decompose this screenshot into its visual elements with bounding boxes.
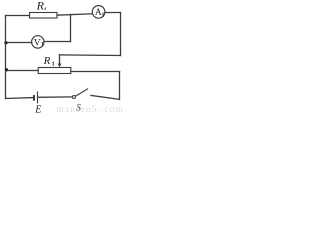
svg-text:R: R: [36, 0, 45, 13]
svg-text:E: E: [34, 104, 41, 115]
svg-text:1: 1: [52, 61, 55, 67]
wire middle row right: [71, 71, 120, 73]
wire left rail: [5, 16, 7, 99]
rheostat slider arrowhead: [58, 64, 62, 68]
wire top left segment: [6, 15, 30, 17]
ammeter A1: [92, 6, 105, 19]
wire voltmeter right: [44, 41, 71, 43]
svg-text:1: 1: [41, 42, 44, 48]
resistor Rs: [30, 13, 58, 19]
rheostat R1: [38, 68, 71, 74]
wire voltmeter branch vertical: [70, 15, 72, 42]
svg-text:V: V: [34, 38, 41, 48]
wire middle row left: [7, 70, 39, 72]
svg-text:s: s: [43, 6, 46, 12]
switch S pivot: [72, 96, 75, 99]
node junction dot V branch: [4, 41, 7, 44]
battery E negative plate: [33, 95, 35, 101]
svg-text:R: R: [43, 55, 51, 67]
battery E positive plate: [37, 92, 39, 104]
wire ammeter to top right corner: [105, 12, 121, 14]
switch S blade: [75, 89, 87, 96]
wire voltmeter left: [6, 42, 32, 44]
wire slider horizontal: [60, 54, 121, 57]
wire slider arrow stem: [59, 55, 61, 64]
node junction dot middle row: [5, 68, 8, 71]
voltmeter V1: [32, 36, 44, 48]
svg-text:1: 1: [102, 12, 105, 18]
wire bottom right: [91, 95, 119, 99]
wire battery to switch: [38, 96, 72, 98]
svg-text:manfen5. com: manfen5. com: [57, 104, 125, 115]
wire right rail lower: [119, 72, 121, 100]
wire top middle segment: [57, 14, 92, 15]
wire bottom left: [6, 97, 34, 100]
wire right rail upper: [120, 13, 122, 56]
